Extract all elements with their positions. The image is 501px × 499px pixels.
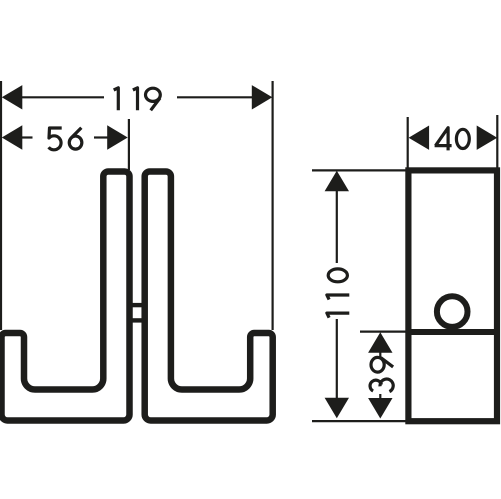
arrow 40 right bbox=[477, 126, 498, 150]
side view roller circle bbox=[437, 296, 468, 327]
extension line right (40) bbox=[496, 115, 498, 168]
side view body bbox=[408, 170, 497, 421]
label 110 (rotated) bbox=[327, 269, 349, 318]
arrow 110 up bbox=[325, 171, 349, 192]
dimension line 119 right segment bbox=[177, 96, 253, 98]
divider extension line (39) bbox=[360, 331, 406, 333]
arrow 110 down bbox=[325, 398, 349, 419]
right hook outline (mirror) bbox=[145, 172, 273, 421]
extension line left (40) bbox=[407, 117, 409, 168]
arrow 56 right bbox=[107, 125, 128, 149]
dimension line 39 upper segment bbox=[379, 351, 381, 357]
center extension line (56) bbox=[128, 119, 130, 170]
top extension line (110) bbox=[312, 169, 406, 171]
arrow 56 left bbox=[2, 125, 23, 149]
side view divider line bbox=[408, 329, 497, 335]
dimension line 56 left segment bbox=[21, 136, 33, 138]
left hook outline bbox=[2, 172, 130, 421]
arrow 119 right bbox=[252, 85, 272, 109]
dimension line 39 lower segment bbox=[379, 394, 381, 400]
dimension line 56 right segment bbox=[94, 136, 108, 138]
label 40 bbox=[435, 128, 470, 151]
arrow 40 left bbox=[409, 126, 430, 150]
arrow 119 left bbox=[2, 85, 23, 109]
arrow 39 up bbox=[368, 332, 392, 353]
label 56 bbox=[49, 128, 82, 150]
dimension line 110 upper segment bbox=[336, 190, 338, 263]
bottom extension line (110/39) bbox=[312, 420, 406, 422]
label 119 bbox=[114, 88, 161, 111]
bridge bar upper bbox=[130, 303, 144, 307]
extension line right (119) bbox=[272, 81, 274, 330]
bridge bar lower bbox=[130, 318, 144, 322]
arrow 39 down bbox=[368, 398, 392, 419]
label 39 (rotated) bbox=[370, 357, 393, 391]
dimension line 110 lower segment bbox=[336, 319, 338, 398]
extension line left (119) bbox=[0, 81, 2, 330]
dimension line 119 left segment bbox=[21, 96, 104, 98]
